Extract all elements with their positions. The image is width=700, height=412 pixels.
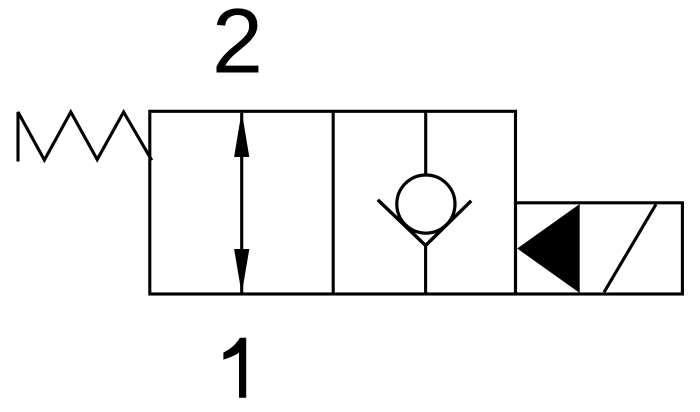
port label 1	[223, 338, 246, 398]
position divider	[332, 111, 335, 294]
solenoid slash	[604, 204, 656, 292]
check-valve seat	[379, 201, 470, 246]
arrowhead down	[234, 249, 249, 294]
check-valve lower stem	[424, 246, 427, 295]
solenoid triangle	[517, 204, 580, 293]
arrowhead up	[234, 111, 249, 157]
spring	[18, 112, 151, 160]
check-valve ball	[397, 175, 455, 233]
svg-text:2: 2	[212, 0, 263, 93]
flow-path arrow stem	[240, 113, 243, 293]
solenoid box	[516, 203, 683, 294]
check-valve upper stem	[424, 111, 427, 176]
valve body	[150, 111, 516, 294]
